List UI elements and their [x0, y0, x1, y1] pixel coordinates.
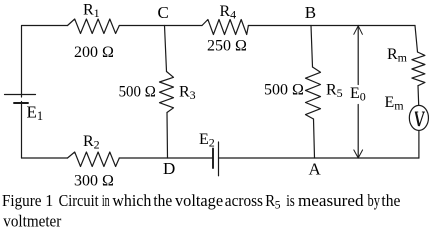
svg-text:A: A [309, 160, 322, 179]
E0 arrow line lower [357, 105, 359, 159]
svg-text:by: by [368, 191, 381, 210]
battery E2 long plate [218, 142, 220, 176]
svg-text:D: D [163, 159, 175, 178]
svg-text:R4: R4 [220, 3, 237, 22]
wire top left [22, 26, 68, 98]
battery E1 long plate [5, 94, 36, 96]
resistor R5 [306, 67, 321, 119]
battery E1 short plate [14, 102, 28, 104]
svg-text:200 Ω: 200 Ω [74, 44, 114, 61]
svg-text:the: the [153, 191, 172, 210]
svg-text:5: 5 [275, 200, 281, 212]
svg-text:R1: R1 [83, 2, 100, 21]
E0 arrowhead bottom [354, 150, 363, 158]
svg-text:1: 1 [45, 191, 53, 210]
wire R4 to top right corner [248, 25, 415, 27]
wire R5 to node A [314, 119, 315, 158]
E0 arrowhead top [354, 26, 363, 35]
svg-text:Em: Em [385, 94, 405, 113]
svg-text:300 Ω: 300 Ω [74, 173, 114, 190]
wire R1 to R4 [119, 25, 202, 27]
svg-text:C: C [158, 3, 169, 22]
node B wire and resistor R5 branch [311, 26, 313, 68]
node C wire and resistor R3 branch [165, 26, 167, 72]
svg-text:E1: E1 [27, 103, 44, 124]
svg-text:E2: E2 [199, 131, 215, 150]
svg-text:E0: E0 [350, 85, 366, 104]
wire R2 to E2 [119, 157, 213, 159]
svg-text:is: is [286, 191, 295, 210]
svg-text:which: which [112, 191, 151, 210]
svg-text:R3: R3 [179, 84, 196, 103]
svg-text:in: in [102, 191, 110, 210]
svg-text:voltmeter: voltmeter [3, 212, 61, 231]
voltmeter V letter [415, 112, 425, 126]
svg-text:across: across [225, 191, 263, 210]
svg-text:B: B [305, 3, 316, 22]
svg-text:Figure: Figure [2, 191, 42, 210]
wire top right corner down to Rm [415, 26, 418, 53]
resistor R4 [202, 20, 248, 35]
wire bottom left [22, 157, 68, 159]
resistor R1 [68, 19, 120, 34]
svg-text:R2: R2 [83, 133, 100, 152]
svg-text:R5: R5 [326, 82, 343, 101]
svg-text:Circuit: Circuit [59, 191, 99, 210]
svg-text:Rm: Rm [387, 46, 408, 65]
svg-text:500 Ω: 500 Ω [119, 84, 156, 101]
wire E1 down to bottom left corner [21, 102, 23, 159]
battery E2 short plate [212, 148, 214, 168]
E0 arrow line upper [357, 26, 359, 85]
svg-text:500 Ω: 500 Ω [264, 82, 304, 99]
resistor R3 [160, 72, 174, 113]
svg-text:voltage: voltage [175, 191, 223, 210]
resistor Rm [412, 52, 425, 86]
wire E2 to bottom right corner [219, 157, 420, 159]
resistor R2 [68, 152, 120, 167]
voltmeter V circle [409, 105, 428, 130]
wire R3 to node D [166, 113, 169, 159]
wire voltmeter to bottom wire [418, 131, 420, 159]
wire Rm to voltmeter [417, 86, 420, 106]
svg-text:measured: measured [298, 191, 364, 210]
svg-text:the: the [381, 191, 400, 210]
svg-text:250 Ω: 250 Ω [207, 38, 247, 55]
caption line 1 [2, 191, 400, 231]
